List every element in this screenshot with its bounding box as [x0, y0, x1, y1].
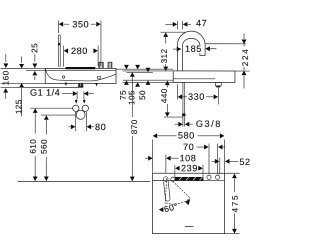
svg-text:440: 440 [160, 88, 169, 103]
svg-text:239: 239 [181, 163, 198, 173]
svg-text:312: 312 [160, 49, 169, 64]
tiny arrow circle1 [75, 99, 77, 100]
shelf front view [45, 68, 116, 83]
dim 105 [135, 65, 140, 70]
supply circle left [73, 105, 79, 111]
dim 80 [75, 112, 77, 131]
face circle detail [62, 76, 64, 78]
spout curve outer [177, 31, 205, 71]
svg-text:125: 125 [14, 99, 23, 114]
svg-text:G1: G1 [30, 88, 43, 98]
ext cluster step [127, 71, 153, 73]
spout curve inner [183, 38, 200, 71]
marker arrow right [95, 83, 98, 86]
svg-text:330: 330 [188, 92, 205, 102]
svg-text:105: 105 [127, 90, 136, 105]
svg-text:610: 610 [29, 139, 38, 154]
face square detail [98, 76, 101, 79]
shelf side mid line [173, 78, 215, 80]
svg-text:25: 25 [30, 43, 39, 53]
handle knob 2 [108, 62, 112, 68]
dim G3/8 [182, 116, 184, 126]
svg-text:50: 50 [138, 90, 147, 100]
dim 75 [124, 65, 129, 70]
svg-text:580: 580 [178, 131, 195, 141]
temperature pin [58, 35, 60, 67]
svg-text:108: 108 [180, 153, 197, 163]
dim 350 [57, 20, 59, 33]
tiny arrow circle2 [83, 99, 85, 100]
shelf side view [173, 71, 235, 83]
waste circle [76, 110, 85, 119]
dim 475 [225, 172, 240, 174]
plan bottom tick [185, 226, 193, 228]
dim 160 [5, 54, 7, 62]
dim 50 [146, 68, 151, 73]
marker arrow left [65, 83, 68, 86]
ext shelf bottom left [1, 82, 46, 84]
ext cluster bottom [123, 81, 174, 83]
dim 312 [161, 31, 185, 33]
ext cluster mid [123, 79, 174, 81]
plan spout tube [164, 181, 171, 201]
svg-text:80: 80 [95, 122, 106, 132]
plan inner band [152, 180, 224, 182]
dim 108 [165, 155, 167, 173]
swivel dashed arc [166, 198, 190, 204]
shelf underside curve [46, 69, 116, 81]
svg-text:870: 870 [130, 119, 139, 134]
svg-text:185: 185 [185, 44, 202, 54]
swivel arc arrowhead [185, 199, 190, 205]
spout slot bar [66, 67, 96, 69]
svg-text:G3/8: G3/8 [196, 119, 222, 129]
dim 239 [174, 165, 176, 177]
svg-text:1/4: 1/4 [46, 88, 60, 98]
dim 330 [176, 84, 178, 99]
swivel label arrow [159, 207, 164, 212]
svg-text:350: 350 [72, 19, 89, 29]
supply pipe side [182, 82, 184, 113]
ext cluster top [116, 68, 173, 70]
dim 440 [165, 81, 170, 86]
plan pivot circle [171, 177, 175, 181]
svg-text:75: 75 [119, 90, 128, 100]
shelf top ext left [1, 68, 46, 70]
waste stub side [215, 82, 221, 85]
plan slot hatched [175, 177, 204, 180]
dim 125 [21, 56, 23, 62]
plan circle 2 [215, 175, 219, 179]
svg-text:160: 160 [2, 70, 11, 85]
shelf plan outline [152, 173, 224, 233]
plan circle 1 [207, 175, 211, 179]
dim 47 [176, 21, 178, 30]
ext stub bottom [1, 86, 79, 88]
dim 610 [30, 107, 72, 109]
G1 1/4 stubs [78, 83, 80, 87]
spout mouth [200, 55, 205, 57]
svg-text:52: 52 [239, 157, 250, 167]
svg-text:47: 47 [196, 18, 207, 28]
svg-text:70: 70 [183, 142, 194, 152]
floor line [18, 180, 150, 182]
dim 560 [41, 114, 75, 116]
svg-text:224: 224 [241, 47, 250, 66]
dim 280 [62, 46, 64, 67]
slot lip line [26, 70, 116, 72]
dim 70 [208, 144, 210, 175]
supply circle right [82, 105, 88, 111]
svg-text:560: 560 [40, 139, 49, 154]
dim 870 [130, 72, 135, 77]
dim 224 [205, 43, 246, 45]
swivel dashed line [173, 181, 191, 198]
dim 52 [219, 158, 221, 175]
dim 580 [151, 140, 153, 173]
dim 185 [173, 48, 177, 50]
handle knob 1 [99, 62, 103, 68]
svg-text:280: 280 [71, 46, 88, 56]
svg-text:475: 475 [231, 194, 240, 213]
